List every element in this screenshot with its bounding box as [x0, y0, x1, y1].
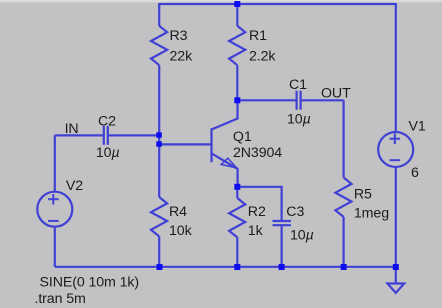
- svg-text:2N3904: 2N3904: [233, 145, 282, 161]
- svg-text:R2: R2: [248, 204, 266, 220]
- resistor R5: [335, 178, 351, 217]
- svg-text:R5: R5: [354, 186, 372, 202]
- ground: [387, 284, 404, 293]
- wire V1 bottom to ground: [395, 167, 397, 284]
- capacitor C1: [297, 91, 344, 110]
- wire left vertical top to R3: [158, 3, 160, 26]
- svg-text:R4: R4: [169, 204, 187, 220]
- svg-text:V2: V2: [66, 178, 83, 194]
- node junction IN-C2: [156, 132, 162, 138]
- node junction rail V1/ground: [393, 264, 399, 270]
- resistor R3: [151, 26, 167, 65]
- svg-text:22k: 22k: [170, 49, 194, 65]
- svg-text:2.2k: 2.2k: [249, 49, 276, 65]
- node junction base: [156, 141, 162, 147]
- svg-text:6: 6: [411, 165, 419, 181]
- node junction emitter: [234, 184, 240, 190]
- node junction rail R4: [157, 264, 163, 270]
- wire emitter node right to C3: [237, 187, 281, 220]
- svg-text:C3: C3: [286, 204, 304, 220]
- svg-text:10µ: 10µ: [287, 111, 311, 127]
- wire R2 bottom to rail: [236, 237, 238, 266]
- svg-text:10k: 10k: [169, 223, 193, 239]
- svg-text:C1: C1: [289, 77, 307, 93]
- node junction top at R1: [234, 1, 240, 7]
- wire top rail: [159, 3, 396, 5]
- resistor R4: [151, 197, 167, 236]
- transistor Q1: [212, 102, 238, 185]
- wire IN down to V2: [54, 135, 56, 191]
- capacitor C3: [273, 221, 291, 267]
- svg-text:R1: R1: [249, 28, 267, 44]
- svg-text:V1: V1: [409, 119, 426, 135]
- wire bottom rail: [55, 266, 396, 268]
- wire R3 bottom to R4 top: [158, 65, 160, 197]
- wire R1 bottom to collector node: [236, 65, 238, 100]
- node junction rail R2: [234, 264, 240, 270]
- resistor R1: [229, 26, 245, 65]
- svg-text:IN: IN: [65, 121, 79, 137]
- svg-text:1meg: 1meg: [354, 206, 389, 222]
- svg-text:C2: C2: [98, 113, 116, 129]
- resistor R2: [229, 198, 245, 237]
- wire emitter node to R2: [236, 187, 238, 198]
- svg-text:1k: 1k: [248, 223, 264, 239]
- node junction rail R5: [341, 264, 347, 270]
- wire IN horizontal to C2: [55, 134, 103, 136]
- wire x=237 top to R1: [236, 4, 238, 26]
- wire collector node to C1: [237, 99, 295, 101]
- wire right vertical to V1: [395, 3, 397, 132]
- voltage source V2: [37, 192, 72, 227]
- wire R5 bottom to rail: [343, 217, 345, 267]
- voltage source V1: [378, 132, 413, 167]
- svg-text:10µ: 10µ: [96, 145, 120, 161]
- svg-text:.tran 5m: .tran 5m: [35, 291, 86, 307]
- wire V2 bottom to rail: [54, 227, 56, 267]
- svg-text:SINE(0 10m 1k): SINE(0 10m 1k): [40, 274, 140, 290]
- svg-text:Q1: Q1: [233, 129, 252, 145]
- capacitor C2: [104, 126, 159, 145]
- wire base from node to Q1: [159, 143, 210, 145]
- wire R4 bottom to rail: [158, 236, 160, 266]
- svg-text:R3: R3: [170, 28, 188, 44]
- svg-text:10µ: 10µ: [290, 228, 314, 244]
- node junction collector/OUT: [234, 97, 240, 103]
- svg-text:OUT: OUT: [321, 86, 351, 102]
- node junction rail C3: [279, 264, 285, 270]
- wire OUT down to R5: [343, 100, 345, 177]
